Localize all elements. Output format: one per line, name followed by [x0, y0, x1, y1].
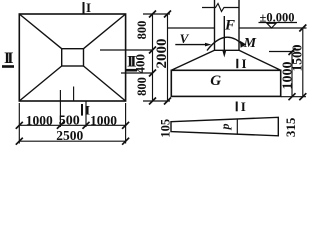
- svg-text:1000: 1000: [90, 113, 117, 128]
- svg-text:400: 400: [132, 54, 147, 73]
- svg-text:I: I: [242, 56, 247, 71]
- svg-text:II: II: [4, 50, 14, 67]
- svg-text:±0.000: ±0.000: [260, 10, 295, 24]
- svg-text:500: 500: [59, 113, 80, 128]
- svg-text:I: I: [86, 0, 91, 15]
- svg-text:M: M: [243, 36, 257, 51]
- svg-text:1000: 1000: [26, 113, 53, 128]
- svg-text:F: F: [224, 18, 235, 34]
- svg-text:p: p: [218, 124, 232, 131]
- svg-text:2000: 2000: [154, 39, 170, 69]
- svg-text:315: 315: [283, 117, 298, 137]
- svg-text:I: I: [241, 99, 246, 114]
- svg-text:G: G: [210, 73, 221, 89]
- svg-text:2500: 2500: [56, 128, 83, 143]
- svg-text:105: 105: [159, 119, 173, 138]
- svg-text:800: 800: [135, 77, 149, 96]
- svg-text:1500: 1500: [289, 44, 304, 71]
- svg-text:800: 800: [135, 21, 149, 40]
- svg-text:V: V: [180, 31, 190, 46]
